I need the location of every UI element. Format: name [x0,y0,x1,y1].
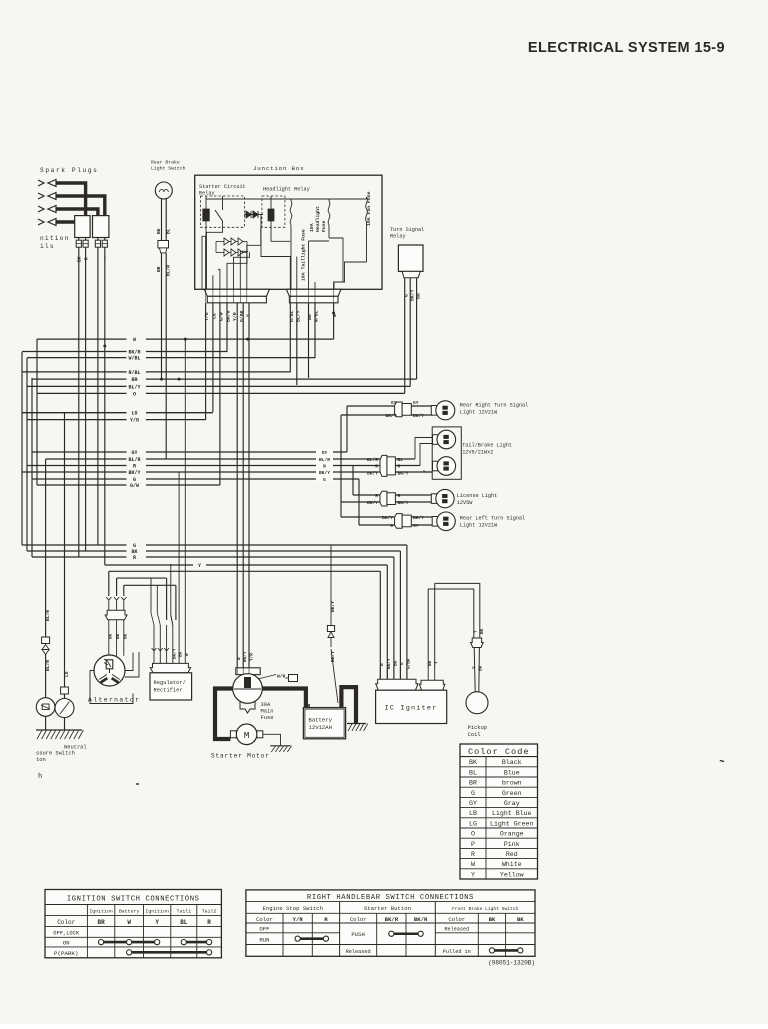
svg-text:White: White [502,861,522,868]
svg-text:Color: Color [57,919,75,926]
svg-text:Coil: Coil [468,732,481,738]
svg-text:Y: Y [245,314,251,317]
svg-text:BK: BK [428,660,433,666]
svg-text:BK: BK [77,256,83,262]
svg-text:ELECTRICAL SYSTEM 15-9: ELECTRICAL SYSTEM 15-9 [528,40,725,56]
svg-text:Y/R: Y/R [293,916,304,923]
svg-text:R: R [323,464,326,470]
svg-text:P(PARK): P(PARK) [54,950,78,957]
svg-text:Y: Y [435,661,440,664]
svg-text:BL: BL [166,228,172,234]
svg-text:W: W [185,653,190,656]
svg-text:W: W [133,337,136,343]
svg-text:BR: BR [469,780,477,787]
svg-text:Y: Y [198,563,201,569]
svg-text:PUSH: PUSH [351,931,364,938]
svg-text:W: W [127,919,131,926]
svg-text:BK: BK [156,228,162,234]
svg-text:Yellow: Yellow [500,871,524,878]
svg-text:Color: Color [448,916,465,923]
svg-text:Battery: Battery [309,717,333,724]
svg-text:BK/Y: BK/Y [413,515,424,521]
svg-text:Battery: Battery [119,909,140,915]
svg-text:R: R [471,851,475,858]
svg-text:IGNITION SWITCH CONNECTIONS: IGNITION SWITCH CONNECTIONS [67,896,200,904]
svg-text:BL/R: BL/R [319,457,330,463]
svg-text:Released: Released [444,927,469,933]
svg-text:R: R [375,493,378,499]
svg-text:LB: LB [469,810,477,817]
svg-text:G: G [471,790,475,797]
svg-text:R: R [133,464,136,470]
svg-text:BK/Y: BK/Y [330,601,336,612]
svg-text:G: G [323,477,326,483]
svg-text:Orange: Orange [500,831,524,838]
svg-text:Front Brake Light Switch: Front Brake Light Switch [452,906,518,912]
svg-text:O: O [133,391,136,397]
svg-text:BK/Y: BK/Y [385,413,396,419]
svg-text:Starter Button: Starter Button [364,905,411,912]
svg-text:Y/R: Y/R [249,653,254,661]
svg-text:Spark Plugs: Spark Plugs [40,167,98,174]
svg-text:Rear Brake: Rear Brake [151,160,180,166]
svg-text:R: R [398,493,401,499]
svg-text:G: G [390,523,393,529]
svg-text:(98051-1320B): (98051-1320B) [488,960,535,967]
svg-text:RIGHT HANDLEBAR SWITCH CONNECT: RIGHT HANDLEBAR SWITCH CONNECTIONS [307,894,474,902]
svg-text:Y: Y [155,919,159,926]
svg-text:12V12AH: 12V12AH [309,724,333,731]
svg-text:Color Code: Color Code [468,747,530,757]
svg-text:Black: Black [502,759,522,766]
svg-text:Red: Red [506,851,518,858]
svg-text:Color: Color [256,916,273,923]
svg-text:BK/R: BK/R [128,350,140,356]
svg-text:ton: ton [36,757,46,763]
svg-text:10A Fan Fuse: 10A Fan Fuse [366,191,372,226]
svg-text:BK: BK [478,665,483,671]
svg-text:Y: Y [474,630,479,633]
svg-text:GY: GY [413,523,419,529]
svg-text:R/BL: R/BL [128,370,140,376]
svg-text:30A: 30A [261,702,271,708]
svg-text:BK/Y: BK/Y [413,413,424,419]
svg-text:Tail/Brake Light: Tail/Brake Light [462,442,512,448]
svg-text:Alternator: Alternator [88,697,140,704]
svg-text:Engine Stop Switch: Engine Stop Switch [263,905,323,912]
svg-text:Y: Y [472,666,477,669]
svg-text:BK: BK [517,916,524,923]
svg-text:Pink: Pink [504,841,520,848]
svg-text:G/BK: G/BK [239,310,245,322]
svg-text:Ignition: Ignition [145,909,169,915]
svg-text:R: R [398,464,401,470]
svg-text:Color: Color [350,916,367,923]
svg-text:h: h [38,773,42,781]
svg-text:BL: BL [180,919,188,926]
svg-text:BK/Y: BK/Y [243,651,248,662]
svg-text:Light Switch: Light Switch [151,166,186,172]
svg-text:BK: BK [108,633,113,639]
svg-text:Tail2: Tail2 [202,909,217,915]
svg-text:BK: BK [469,759,477,766]
svg-text:G/W: G/W [130,483,139,489]
svg-text:R: R [133,555,136,561]
svg-text:BK: BK [394,660,399,666]
svg-text:R: R [83,257,89,260]
svg-text:LG: LG [469,820,477,827]
svg-text:BL/Y: BL/Y [128,384,140,390]
svg-text:Light Green: Light Green [490,820,534,827]
svg-text:M: M [244,730,250,741]
svg-text:OFF: OFF [259,926,269,933]
svg-text:Junction Box: Junction Box [253,165,304,172]
svg-text:BL/R: BL/R [45,610,51,621]
svg-text:BL/R: BL/R [45,660,51,671]
svg-text:10A: 10A [309,223,315,232]
svg-text:BK/R: BK/R [414,916,428,923]
svg-text:BK: BK [489,916,496,923]
svg-text:BK/Y: BK/Y [367,470,378,476]
svg-text:OFF,LOCK: OFF,LOCK [53,931,80,937]
svg-text:W: W [237,657,242,660]
svg-text:Fuse: Fuse [321,220,327,232]
svg-text:nition: nition [40,235,69,242]
svg-text:BR: BR [97,919,105,926]
svg-text:R: R [375,464,378,470]
svg-text:Headlight Relay: Headlight Relay [263,187,310,193]
svg-text:W/R: W/R [277,674,286,680]
svg-text:RUN: RUN [259,936,269,943]
svg-text:Pulled in: Pulled in [443,949,471,955]
svg-text:Neutral: Neutral [64,745,87,751]
svg-text:ils: ils [40,243,55,250]
svg-text:BK/Y: BK/Y [319,470,330,476]
svg-text:Tail1: Tail1 [176,909,191,915]
svg-text:W: W [471,861,475,868]
svg-text:BK: BK [480,628,485,634]
svg-text:Light Blue: Light Blue [492,810,532,817]
svg-text:BK/Y: BK/Y [367,500,378,506]
svg-text:BL: BL [469,769,477,776]
svg-text:Y/G: Y/G [130,418,139,424]
svg-text:Green: Green [502,790,522,797]
svg-text:W/BL: W/BL [128,356,140,362]
svg-text:Relay: Relay [390,234,406,240]
svg-text:Fuse: Fuse [261,715,274,721]
svg-text:BK/Y: BK/Y [387,658,392,669]
svg-text:License Light: License Light [457,493,497,499]
svg-text:Regulator/: Regulator/ [154,680,186,686]
svg-text:P: P [471,841,475,848]
svg-text:Ignition: Ignition [89,909,113,915]
svg-text:Starter Motor: Starter Motor [211,753,270,760]
svg-text:Y: Y [471,871,475,878]
svg-text:ON: ON [63,940,70,947]
svg-text:Starter Circuit: Starter Circuit [199,184,246,190]
svg-text:R: R [207,919,211,926]
svg-text:12V5W: 12V5W [457,500,473,506]
svg-text:BK/Y: BK/Y [382,515,393,521]
svg-text:BR: BR [131,377,137,383]
svg-text:BK/Y: BK/Y [398,470,409,476]
svg-text:GY: GY [391,400,397,406]
svg-text:Rectifier: Rectifier [154,688,183,694]
svg-text:BL/R: BL/R [367,457,378,463]
svg-text:GY: GY [413,400,419,406]
svg-text:O: O [471,831,475,838]
svg-text:R: R [380,663,385,666]
svg-text:Rear Right Turn Signal: Rear Right Turn Signal [460,403,529,409]
svg-text:Rear Left Turn Signal: Rear Left Turn Signal [460,515,525,521]
svg-text:LG: LG [131,411,137,417]
svg-text:12V5/21Wx2: 12V5/21Wx2 [462,450,493,456]
svg-text:Light 12V21W: Light 12V21W [460,410,498,416]
svg-text:IC Igniter: IC Igniter [385,705,438,713]
svg-text:G: G [400,662,405,665]
svg-text:GY: GY [131,450,137,456]
svg-text:GY: GY [322,450,328,456]
svg-text:Gray: Gray [504,800,520,807]
svg-text:BK/Y: BK/Y [398,500,409,506]
svg-text:Main: Main [261,709,274,715]
svg-text:BK: BK [179,651,184,657]
svg-text:BK/R: BK/R [385,916,399,923]
svg-text:Pickup: Pickup [468,725,487,731]
svg-text:brown: brown [502,780,522,787]
svg-text:Light 12V21W: Light 12V21W [460,523,498,529]
svg-text:ssure Switch: ssure Switch [36,751,75,757]
svg-text:BK: BK [116,633,121,639]
svg-text:Released: Released [346,949,371,955]
svg-text:LG: LG [64,671,70,677]
svg-text:10A Taillight Fuse: 10A Taillight Fuse [301,229,307,281]
svg-text:BK/Y: BK/Y [128,470,140,476]
svg-text:BK/Y: BK/Y [173,648,178,659]
svg-text:BL: BL [398,457,404,463]
svg-text:Headlight: Headlight [315,206,321,232]
svg-text:Turn Signal: Turn Signal [390,227,424,233]
svg-text:BK: BK [123,633,128,639]
svg-text:BL/R: BL/R [128,457,140,463]
svg-text:GY: GY [469,800,477,807]
svg-text:G/BK: G/BK [407,658,412,669]
svg-text:Blue: Blue [504,769,520,776]
